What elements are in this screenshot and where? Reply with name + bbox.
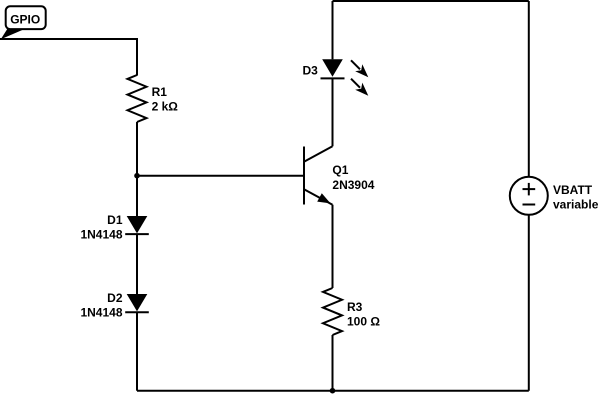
- wire VBATT top lead: [528, 1, 530, 177]
- junction node emitter-bottom: [330, 388, 336, 394]
- svg-text:GPIO: GPIO: [10, 12, 40, 26]
- svg-text:1N4148: 1N4148: [80, 228, 122, 242]
- wire top rail: [333, 0, 529, 2]
- wire GPIO to R1 top: [0, 39, 137, 76]
- resistor R3: [323, 288, 342, 335]
- wire D2 cathode to bottom rail: [136, 312, 138, 391]
- wire bottom rail: [137, 390, 529, 392]
- LED D3: [321, 59, 369, 95]
- svg-text:R3: R3: [347, 300, 363, 314]
- svg-text:variable: variable: [553, 198, 599, 212]
- wire VBATT bottom lead to bottom rail: [528, 215, 530, 391]
- svg-text:R1: R1: [152, 85, 168, 99]
- wire D1 cathode to D2 anode: [136, 234, 138, 294]
- wire R3 bottom to bottom rail: [332, 335, 334, 391]
- junction node base: [134, 173, 140, 179]
- svg-text:D3: D3: [302, 64, 318, 78]
- svg-text:2N3904: 2N3904: [332, 178, 374, 192]
- svg-text:100 Ω: 100 Ω: [347, 314, 380, 328]
- wire top rail to D3 anode: [332, 1, 334, 59]
- node GPIO flag: [1, 6, 46, 39]
- diode D2: [125, 294, 149, 312]
- wire D3 cathode to Q1 collector: [332, 78, 334, 146]
- svg-text:D2: D2: [107, 291, 123, 305]
- svg-text:1N4148: 1N4148: [80, 306, 122, 320]
- resistor R1: [128, 75, 147, 122]
- wire base node to Q1 base: [137, 175, 303, 177]
- svg-text:VBATT: VBATT: [553, 183, 593, 197]
- transistor Q1: [304, 146, 333, 204]
- wire R1 bottom to D1 anode: [136, 122, 138, 216]
- diode D1: [125, 216, 149, 234]
- wire Q1 emitter to R3 top: [332, 205, 334, 288]
- svg-text:D1: D1: [107, 213, 123, 227]
- svg-text:Q1: Q1: [332, 163, 348, 177]
- source VBATT: [510, 177, 548, 215]
- svg-text:2 kΩ: 2 kΩ: [152, 100, 179, 114]
